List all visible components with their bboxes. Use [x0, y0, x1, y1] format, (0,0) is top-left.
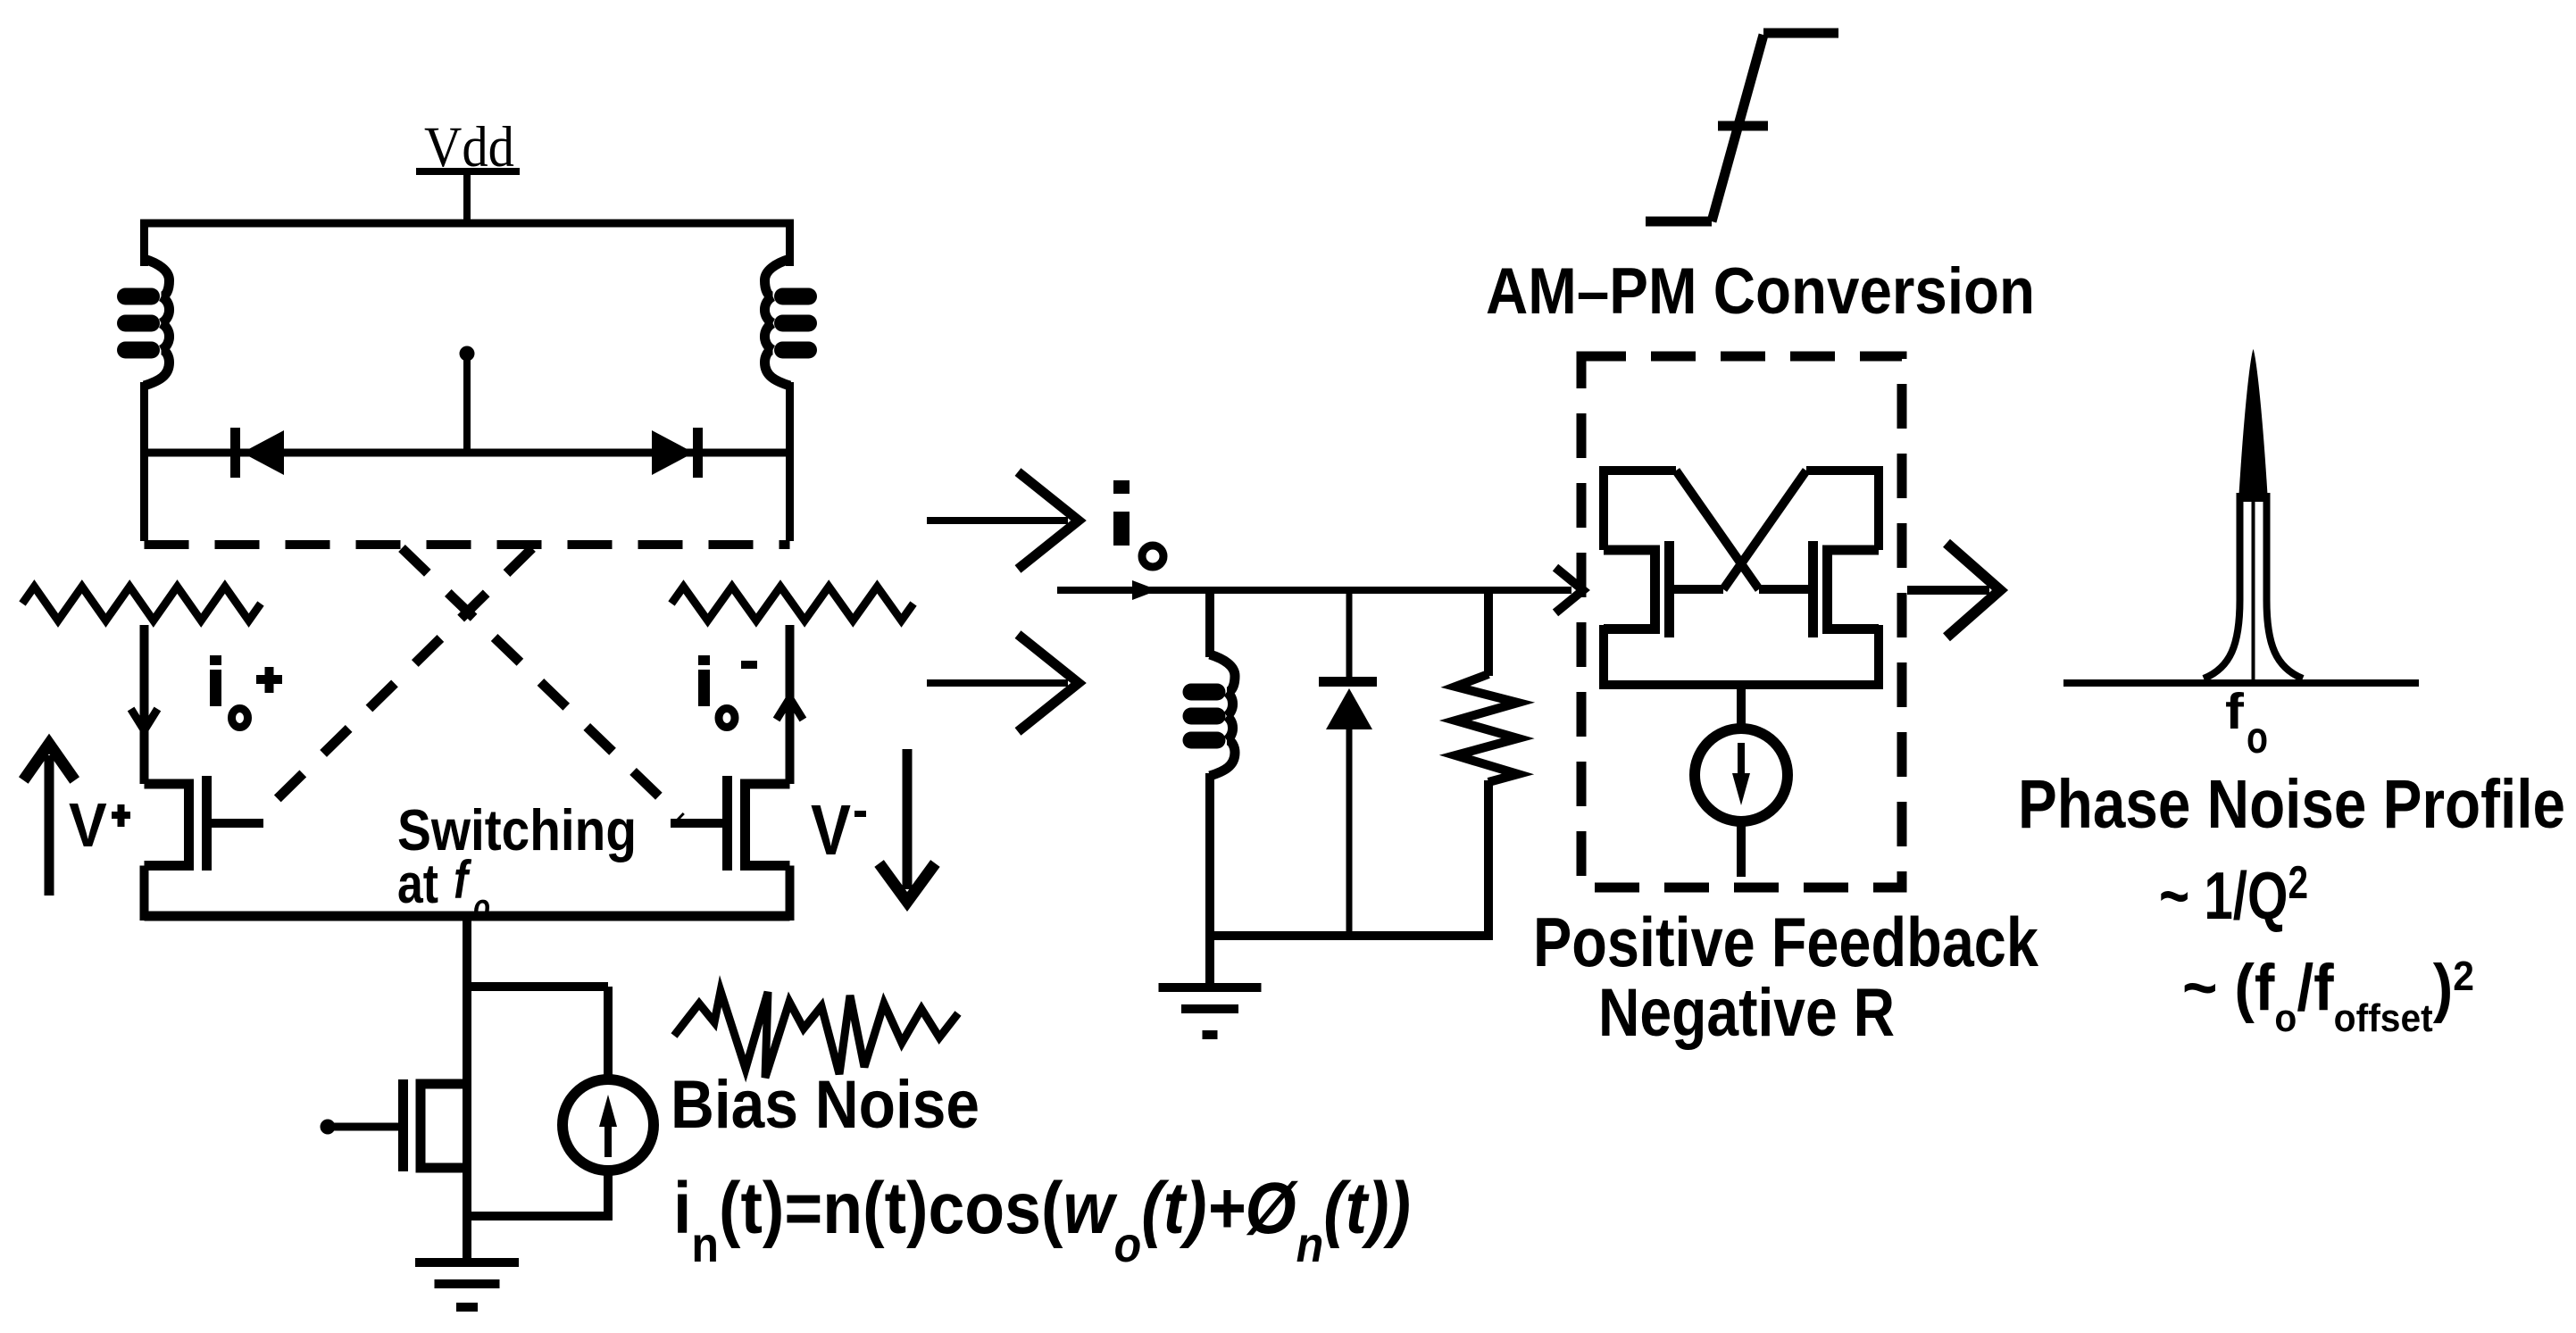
svg-text:Phase Noise Profile: Phase Noise Profile — [2018, 766, 2565, 843]
svg-text:AM–PM Conversion: AM–PM Conversion — [1486, 254, 2035, 328]
svg-text:V: V — [811, 790, 851, 871]
svg-text:~ 1/Q2: ~ 1/Q2 — [2159, 856, 2308, 934]
svg-text:Negative R: Negative R — [1598, 974, 1895, 1050]
svg-text:at: at — [397, 854, 438, 915]
svg-text:Bias Noise: Bias Noise — [671, 1067, 980, 1142]
svg-text:o: o — [2247, 712, 2268, 762]
svg-text:o: o — [473, 886, 490, 928]
svg-text:Positive Feedback: Positive Feedback — [1533, 904, 2038, 981]
svg-text:V: V — [69, 790, 107, 860]
svg-text:f: f — [2225, 683, 2245, 740]
